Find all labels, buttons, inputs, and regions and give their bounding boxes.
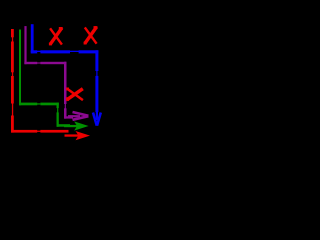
blue horizontal spine	[31, 51, 99, 52]
green horizontal 1 thick segments	[19, 103, 37, 106]
purple vertical left	[24, 26, 26, 64]
purple horizontal 1 thick segments	[24, 62, 37, 64]
purple arrow glyph	[68, 112, 88, 120]
green horizontal 2	[57, 124, 71, 127]
purple horizontal 2	[64, 116, 73, 118]
green vertical right spine	[57, 103, 58, 127]
red path vertical thick segments	[11, 29, 69, 133]
purple path	[24, 26, 73, 119]
green vertical left	[19, 30, 21, 106]
red horizontal thick segments	[11, 130, 37, 133]
purple vertical right thick segments	[64, 62, 67, 104]
blue path	[31, 24, 99, 112]
purple horizontal 1 spine	[24, 62, 41, 63]
green horizontal 1 spine	[19, 103, 40, 104]
green arrow glyph	[64, 121, 89, 130]
red arrow glyph (points right)	[65, 131, 91, 140]
red X mark 1	[50, 28, 62, 45]
blue horizontal thick segments	[31, 50, 37, 53]
green path	[19, 30, 70, 127]
red X mark 3 (rotated, squat)	[67, 89, 83, 101]
red path spine (thin line through necks)	[11, 29, 68, 132]
blue vertical left	[31, 24, 34, 53]
blue arrow glyph (points down)	[93, 110, 101, 126]
red X mark 2	[85, 27, 97, 44]
purple vertical right spine	[65, 62, 66, 119]
blue vertical right thick segments	[95, 50, 98, 71]
blue vertical right spine	[96, 50, 97, 112]
green vertical right thick segments	[57, 103, 59, 109]
